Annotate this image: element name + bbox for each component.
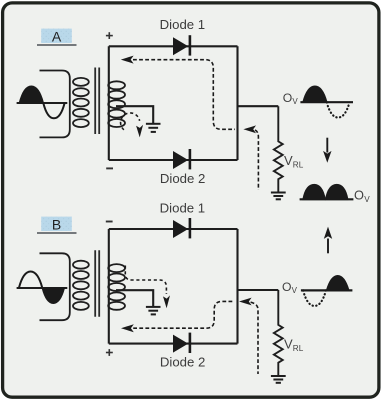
svg-text:V: V xyxy=(292,286,298,295)
wire right side A xyxy=(236,46,238,160)
transformer T2 secondary winding xyxy=(108,264,125,310)
dashed current path at center tap B xyxy=(125,266,170,309)
minus terminal A xyxy=(106,167,113,169)
diode D1 B xyxy=(173,218,190,238)
svg-text:V: V xyxy=(284,337,293,352)
output waveform B (half-wave inverted phase) xyxy=(301,276,353,306)
arrow down xyxy=(323,138,331,163)
diode D2 B xyxy=(173,333,190,353)
center tap wire B xyxy=(116,290,153,306)
svg-text:B: B xyxy=(52,216,61,232)
label VRL A xyxy=(284,153,304,170)
wire bottom branch A xyxy=(109,159,238,161)
svg-text:Diode 2: Diode 2 xyxy=(160,171,205,186)
resistor RL B xyxy=(274,290,283,375)
ground center tap B xyxy=(146,307,161,315)
wire output node A xyxy=(238,105,279,107)
svg-text:V: V xyxy=(364,195,370,204)
dashed current arc at center tap A xyxy=(121,113,144,137)
svg-text:O: O xyxy=(354,188,364,203)
svg-text:Diode 1: Diode 1 xyxy=(160,201,205,216)
node label A xyxy=(37,28,77,45)
svg-text:Diode 2: Diode 2 xyxy=(160,355,205,370)
dashed current path B (through diode 2) xyxy=(121,301,235,332)
dashed return path B (to load) xyxy=(239,298,258,374)
input sine wave A xyxy=(17,86,68,118)
label VRL B xyxy=(284,337,304,354)
input sine wave B xyxy=(17,272,68,304)
wire top branch B xyxy=(109,228,238,230)
svg-text:Diode 1: Diode 1 xyxy=(160,17,205,32)
transformer T2 core xyxy=(95,250,99,316)
label OV node A xyxy=(283,91,299,106)
wire bottom branch B xyxy=(109,343,238,345)
wire output node B xyxy=(238,289,279,291)
node label B xyxy=(37,216,77,233)
diode D2 A xyxy=(173,149,190,169)
center tap wire A xyxy=(116,106,153,123)
transformer T1 secondary winding xyxy=(108,81,125,127)
label OV result xyxy=(354,188,370,204)
plus terminal A xyxy=(106,32,113,39)
ground below resistor A xyxy=(271,193,286,200)
transformer T1 primary winding xyxy=(40,71,89,138)
svg-text:O: O xyxy=(283,91,292,105)
wire right side B xyxy=(236,229,238,344)
minus terminal B xyxy=(106,221,113,223)
svg-text:RL: RL xyxy=(293,161,304,170)
svg-text:V: V xyxy=(292,97,298,106)
wire secondary branch A (left side) xyxy=(108,46,110,160)
ground below resistor B xyxy=(271,376,286,383)
svg-text:A: A xyxy=(52,28,62,44)
plus terminal B xyxy=(106,349,113,356)
svg-text:O: O xyxy=(282,280,291,294)
svg-text:V: V xyxy=(284,153,293,168)
dashed return path A (to load) xyxy=(243,125,258,190)
resistor RL A xyxy=(274,106,283,191)
output waveform A (half-wave) xyxy=(300,86,353,117)
wire top branch A xyxy=(109,45,238,47)
arrow up xyxy=(324,227,332,254)
transformer T2 primary winding xyxy=(40,253,89,320)
dashed current path A (through diode 1) xyxy=(121,56,235,130)
transformer T1 core xyxy=(95,68,99,135)
label OV node B xyxy=(282,280,298,295)
ground center tap A xyxy=(146,124,161,132)
result waveform (full-wave) xyxy=(300,185,354,200)
svg-text:RL: RL xyxy=(293,344,304,353)
wire secondary branch B (left side) xyxy=(108,229,110,344)
diode D1 A xyxy=(173,35,190,55)
